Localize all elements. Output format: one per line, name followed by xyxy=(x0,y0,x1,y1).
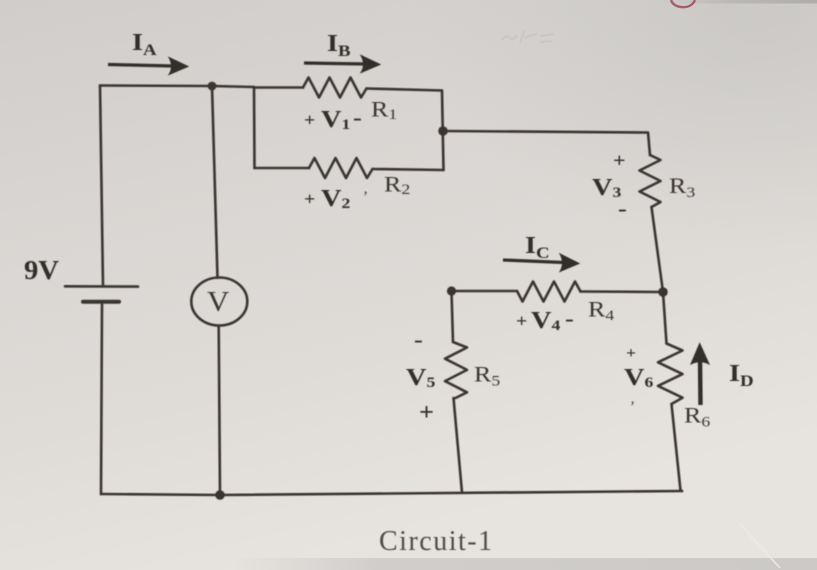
svg-text:’: ’ xyxy=(630,399,635,415)
node B junction dot xyxy=(438,126,448,136)
wire R1 branch left lead xyxy=(254,86,303,89)
wire node D to R5 top xyxy=(452,291,454,342)
node A junction dot xyxy=(208,82,217,91)
svg-text:9V: 9V xyxy=(24,256,59,286)
wire parallel right junction vertical xyxy=(442,91,444,171)
current arrow IA xyxy=(108,58,188,75)
wire voltmeter branch upper xyxy=(212,86,218,278)
current arrow IB xyxy=(304,56,380,73)
voltmeter U1 circle xyxy=(191,278,247,326)
wire voltmeter branch lower xyxy=(219,326,220,496)
svg-text:+: + xyxy=(516,312,527,332)
svg-text:+: + xyxy=(626,344,636,362)
svg-text:V: V xyxy=(207,287,229,317)
svg-text:’: ’ xyxy=(363,189,368,205)
wire bottom horizontal xyxy=(101,491,682,495)
svg-text:-: - xyxy=(565,307,574,331)
resistor R1 zigzag xyxy=(303,78,367,98)
svg-text:+: + xyxy=(304,111,315,131)
wire R2 branch right lead xyxy=(373,169,444,170)
svg-text:+: + xyxy=(613,149,626,172)
wire R2 branch left lead xyxy=(255,167,310,170)
wire top-left horizontal xyxy=(100,86,254,88)
svg-text:+: + xyxy=(419,400,434,426)
svg-text:Circuit-1: Circuit-1 xyxy=(379,526,494,557)
wire parallel left junction vertical xyxy=(253,87,256,168)
wire node B to R3 top xyxy=(443,131,650,155)
wire node C to R6 top xyxy=(663,292,667,344)
resistor R3 zigzag xyxy=(640,155,661,207)
battery BT1 9V plate short xyxy=(83,300,119,304)
wire R1 branch right lead xyxy=(367,89,443,91)
svg-text:-: - xyxy=(414,328,423,352)
resistor R6 zigzag xyxy=(658,344,683,405)
wire R4 left lead xyxy=(452,290,518,293)
svg-text:-: - xyxy=(353,106,362,130)
wire R3 bottom to node C xyxy=(652,207,664,292)
current arrow ID (upward) xyxy=(691,344,709,406)
current arrow IC xyxy=(503,254,579,272)
svg-text:+: + xyxy=(304,190,315,210)
node C junction dot xyxy=(658,287,668,297)
wire R6 bottom lead xyxy=(672,404,683,491)
wire left vertical upper xyxy=(100,86,103,287)
resistor R4 zigzag xyxy=(517,282,581,302)
wire R5 bottom lead xyxy=(454,398,463,493)
resistor R5 zigzag xyxy=(445,342,467,398)
node D junction dot xyxy=(447,286,456,295)
node E junction dot (bottom) xyxy=(215,490,225,500)
resistor R2 zigzag xyxy=(309,158,373,178)
wire left vertical lower xyxy=(101,305,102,495)
svg-text:-: - xyxy=(618,197,627,221)
wire R4 right lead xyxy=(581,290,664,293)
battery BT1 9V plate long xyxy=(65,285,138,288)
